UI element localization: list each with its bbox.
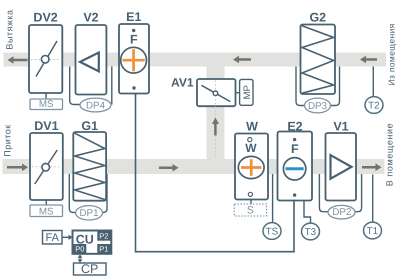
svg-text:DP1: DP1 [79,208,98,219]
svg-text:CP: CP [81,262,98,276]
svg-text:DP2: DP2 [332,207,351,218]
svg-text:FA: FA [45,232,59,244]
svg-text:Приток: Приток [3,124,13,156]
svg-text:DP4: DP4 [86,101,106,112]
svg-text:T3: T3 [305,227,317,238]
svg-text:G1: G1 [81,119,98,133]
svg-text:T1: T1 [367,226,378,237]
svg-text:В помещение: В помещение [385,123,395,187]
svg-text:MS: MS [39,207,54,218]
svg-text:T2: T2 [368,101,379,112]
svg-text:S: S [247,205,254,217]
svg-text:P1: P1 [99,244,108,253]
svg-text:Из помещения: Из помещения [387,23,397,85]
svg-text:P0: P0 [75,244,84,253]
svg-text:W: W [246,120,258,134]
svg-text:G2: G2 [309,11,326,25]
svg-text:E1: E1 [126,10,141,24]
svg-text:TS: TS [266,227,279,238]
svg-text:V2: V2 [83,11,98,25]
svg-text:W: W [245,141,257,155]
svg-text:F: F [130,33,138,47]
svg-text:DV1: DV1 [34,119,58,133]
svg-text:V1: V1 [333,120,348,134]
svg-text:MP: MP [242,85,253,99]
svg-text:E2: E2 [287,120,302,134]
svg-text:F: F [291,142,299,156]
svg-text:P2: P2 [99,232,108,241]
svg-text:AV1: AV1 [171,76,194,90]
svg-text:DV2: DV2 [33,11,57,25]
svg-text:MS: MS [39,99,54,110]
svg-text:DP3: DP3 [308,101,328,112]
svg-text:Вытяжка: Вытяжка [5,9,15,49]
